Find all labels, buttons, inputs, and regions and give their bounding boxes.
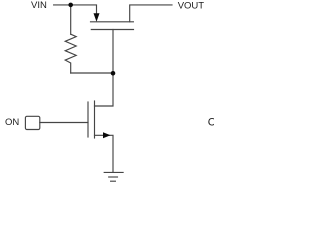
svg-text:ON: ON xyxy=(5,117,19,128)
svg-text:VIN: VIN xyxy=(31,0,47,11)
svg-text:VOUT: VOUT xyxy=(178,0,205,11)
svg-text:C: C xyxy=(208,117,214,129)
